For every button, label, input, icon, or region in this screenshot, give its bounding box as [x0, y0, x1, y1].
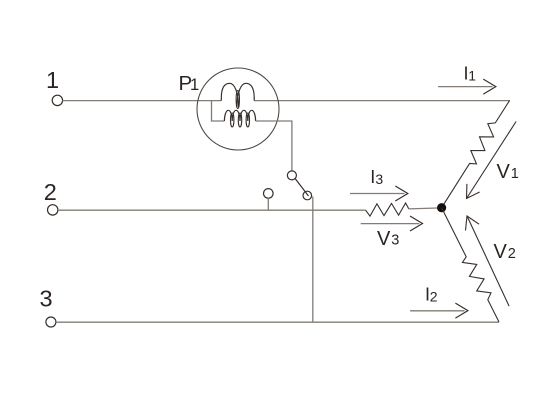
- voltage coil hanging loop a: [231, 113, 234, 127]
- terminal 1: [52, 95, 62, 105]
- wire: wattmeter internal junction down: [212, 101, 225, 121]
- switch contact C (left, to line2): [264, 189, 274, 199]
- voltage coil hanging loop b: [238, 113, 241, 127]
- V1 arrowhead: [467, 184, 480, 199]
- svg-text:2: 2: [44, 179, 57, 205]
- svg-text:1: 1: [468, 67, 476, 83]
- svg-text:3: 3: [375, 171, 383, 187]
- svg-text:3: 3: [391, 233, 399, 249]
- svg-text:1: 1: [46, 67, 59, 93]
- wattmeter voltage coil (bottom): [224, 110, 255, 121]
- wire: voltage coil to switch drop: [256, 121, 292, 171]
- wattmeter P1 circle: [197, 68, 279, 150]
- wattmeter current coil (top): [221, 83, 254, 107]
- V3 arrowhead: [410, 216, 423, 231]
- I1 arrow shaft: [438, 86, 493, 88]
- switch contact B (right): [303, 191, 312, 200]
- resistor Z2 on diagonal (line3 to node): [442, 208, 499, 322]
- V1 arrow shaft: [467, 122, 517, 199]
- wattmeter current coil crossing lens: [236, 91, 239, 109]
- V2 arrow shaft: [467, 216, 509, 306]
- resistor R3 (horizontal): [366, 203, 409, 216]
- node (star point): [437, 203, 446, 212]
- svg-text:1: 1: [511, 166, 519, 182]
- wire line1 right (wattmeter to top-right corner): [254, 100, 510, 102]
- svg-text:2: 2: [508, 246, 516, 262]
- wire resistor to node: [409, 208, 442, 209]
- V2 arrowhead: [466, 216, 480, 231]
- switch blade: [295, 179, 308, 197]
- svg-text:3: 3: [39, 285, 52, 311]
- wire line1 left (terminal 1 to wattmeter coil): [63, 100, 222, 102]
- svg-text:V: V: [377, 228, 391, 250]
- I2 arrowhead: [455, 303, 468, 318]
- svg-text:V: V: [494, 241, 508, 263]
- voltage coil hanging loop c: [246, 113, 249, 127]
- wire line3: [56, 321, 499, 323]
- svg-text:2: 2: [430, 288, 438, 304]
- svg-text:1: 1: [190, 76, 199, 94]
- I3 arrowhead: [395, 186, 408, 201]
- V3 arrow shaft: [361, 223, 420, 225]
- terminal 3: [46, 317, 56, 327]
- switch contact A (from wattmeter): [287, 171, 296, 180]
- resistor Z1 on diagonal (line1 to node): [442, 100, 510, 207]
- I2 arrow shaft: [410, 310, 464, 312]
- svg-text:V: V: [497, 161, 511, 183]
- I3 arrow shaft: [350, 193, 405, 195]
- I1 arrowhead: [483, 79, 496, 94]
- wire contact C stub: [267, 198, 269, 210]
- wire line2: [58, 209, 366, 211]
- terminal 2: [48, 205, 58, 215]
- wire switch to line3: [312, 197, 314, 323]
